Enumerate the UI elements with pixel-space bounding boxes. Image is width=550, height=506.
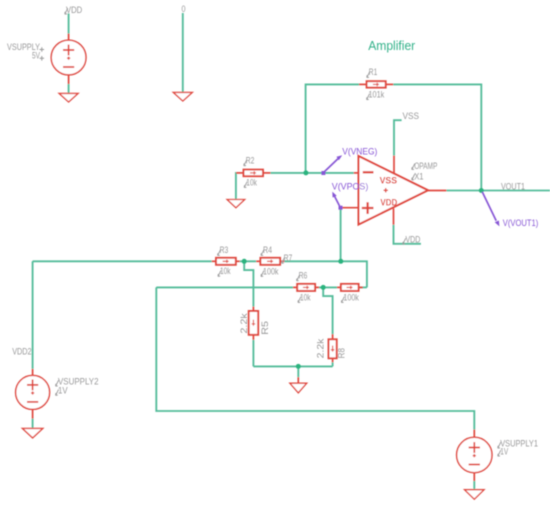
svg-text:OPAMP: OPAMP <box>414 161 437 171</box>
svg-text:V(VOUT1): V(VOUT1) <box>503 218 539 228</box>
svg-text:100k: 100k <box>343 292 359 302</box>
svg-text:1V: 1V <box>500 446 508 456</box>
svg-text:1V: 1V <box>58 386 68 396</box>
svg-text:10k: 10k <box>220 266 231 276</box>
svg-text:VDD: VDD <box>380 198 397 208</box>
svg-text:R8: R8 <box>336 348 346 358</box>
svg-text:V(VPOS): V(VPOS) <box>332 181 369 191</box>
svg-text:R2: R2 <box>246 155 255 165</box>
svg-text:100k: 100k <box>263 266 279 276</box>
svg-text:2.2k: 2.2k <box>315 338 325 358</box>
svg-text:5V: 5V <box>32 50 40 60</box>
svg-text:VDD: VDD <box>66 5 83 15</box>
svg-text:VDD: VDD <box>406 235 421 245</box>
svg-text:VDD2: VDD2 <box>12 347 31 357</box>
svg-text:VSS: VSS <box>403 111 420 121</box>
svg-text:R7: R7 <box>284 253 293 263</box>
svg-text:0: 0 <box>182 4 186 14</box>
svg-text:2.2k: 2.2k <box>239 313 249 334</box>
svg-text:R6: R6 <box>299 271 308 281</box>
svg-text:V(VNEG): V(VNEG) <box>342 147 377 157</box>
svg-text:10k: 10k <box>300 292 311 302</box>
svg-text:101k: 101k <box>369 90 385 100</box>
svg-text:VSS: VSS <box>380 176 397 186</box>
svg-text:VOUT1: VOUT1 <box>501 182 525 192</box>
svg-text:R5: R5 <box>260 321 270 335</box>
svg-text:R3: R3 <box>220 245 229 255</box>
svg-text:X1: X1 <box>414 171 423 181</box>
svg-text:R4: R4 <box>263 245 272 255</box>
svg-text:10k: 10k <box>246 177 257 187</box>
svg-text:Amplifier: Amplifier <box>368 38 416 53</box>
svg-text:R1: R1 <box>369 67 378 77</box>
